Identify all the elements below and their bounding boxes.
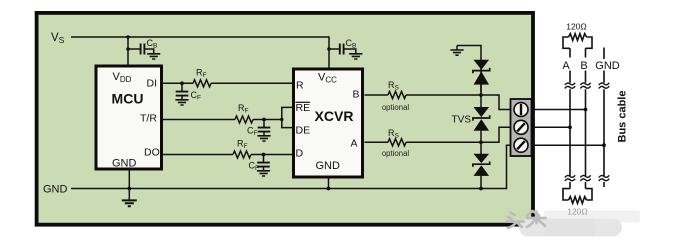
wire XCVR GND drop (328, 177, 330, 189)
break marks bus GND (599, 83, 609, 181)
junction GND/TVS (479, 187, 483, 191)
svg-text:T/R: T/R (140, 113, 157, 125)
TVS D3 (473, 154, 490, 176)
wire terminal1 to bus B (533, 109, 586, 111)
break marks bus A (565, 83, 575, 181)
svg-text:GND: GND (316, 160, 341, 172)
svg-text:DI: DI (147, 78, 158, 90)
wire TVS bottom (480, 176, 482, 189)
ground CB2 (349, 54, 362, 59)
resistor RF2 (235, 116, 253, 123)
TVS D2 (473, 107, 490, 130)
svg-text:GND: GND (112, 158, 137, 170)
terminal 2 (514, 120, 528, 134)
bus line GND (603, 48, 605, 188)
wire T/R to bracket (163, 119, 282, 121)
svg-text:RE: RE (296, 102, 311, 114)
wire TVS feed (457, 46, 481, 93)
svg-text:A: A (351, 138, 358, 150)
svg-text:B: B (580, 60, 587, 72)
wire GND rail (71, 145, 511, 188)
wire terminal2 to bus A (533, 126, 571, 128)
resistor RS2 (388, 139, 406, 146)
junction XCVR GND (327, 187, 331, 191)
resistor RT1 120ohm top (563, 34, 592, 49)
junction A/TVS (479, 140, 483, 144)
ground CF2 (257, 136, 270, 141)
wire RE-DE bracket (282, 107, 292, 127)
junction VDD tap (126, 35, 130, 39)
TVS D1 (473, 60, 490, 84)
resistor RF3 (233, 151, 251, 158)
svg-text:TVS: TVS (452, 115, 472, 126)
terminal 1 (514, 103, 528, 117)
wire VDD drop (127, 37, 129, 65)
junction CF2 (262, 118, 266, 122)
svg-text:B: B (353, 89, 360, 101)
svg-text:D: D (296, 148, 304, 160)
svg-text:120Ω: 120Ω (566, 22, 587, 32)
svg-text:Bus cable: Bus cable (617, 91, 629, 143)
capacitor CB2 (329, 44, 356, 55)
junction MCU GND (127, 187, 131, 191)
svg-text:R: R (296, 80, 304, 92)
watermark (507, 211, 641, 237)
ground CF1 (175, 100, 188, 105)
junction CB2 tap (327, 47, 331, 51)
junction B/TVS (479, 93, 483, 97)
junction CB1 tap (126, 47, 130, 51)
junction CF1 (180, 81, 184, 85)
resistor RF1 (193, 80, 211, 87)
XCVR U2 (294, 69, 363, 177)
junction CF3 (262, 153, 266, 157)
wire TVS mid1 (480, 84, 482, 107)
board outline (37, 13, 533, 225)
MCU U1 (96, 66, 162, 169)
bus line B (585, 48, 587, 188)
ground CB1 (147, 54, 160, 59)
svg-text:GND: GND (43, 184, 68, 196)
svg-text:MCU: MCU (112, 91, 144, 107)
capacitor CF2 (258, 120, 271, 136)
wire TVS mid2 (480, 130, 482, 154)
connector J1 (511, 99, 532, 156)
capacitor CF3 (257, 155, 270, 171)
svg-text:DE: DE (296, 125, 311, 137)
bus line A (569, 48, 571, 188)
wire VCC drop (328, 36, 330, 67)
ground TVS top (456, 46, 458, 50)
wire VS rail (71, 36, 329, 38)
wire DO to D (163, 154, 292, 156)
wire DI to R (163, 82, 292, 84)
capacitor CB1 (128, 44, 154, 55)
ground MCU (128, 189, 130, 201)
svg-text:optional: optional (382, 149, 410, 158)
junction T/R bracket (280, 118, 283, 121)
svg-text:XCVR: XCVR (315, 108, 354, 124)
svg-text:optional: optional (382, 103, 410, 112)
svg-text:A: A (562, 60, 570, 72)
terminal 3 (514, 138, 528, 152)
resistor RT2 120ohm bottom (563, 189, 592, 204)
wire A line (365, 127, 511, 142)
svg-text:120Ω: 120Ω (567, 207, 588, 217)
svg-text:GND: GND (595, 60, 620, 72)
wire MCU GND drop (128, 169, 130, 189)
break marks bus B (580, 83, 590, 181)
svg-text:DO: DO (144, 147, 160, 159)
wire B line (365, 95, 511, 110)
ground CF3 (257, 171, 270, 176)
capacitor CF1 (176, 83, 189, 99)
resistor RS1 (388, 91, 406, 98)
wire terminal3 to bus GND (533, 144, 605, 146)
